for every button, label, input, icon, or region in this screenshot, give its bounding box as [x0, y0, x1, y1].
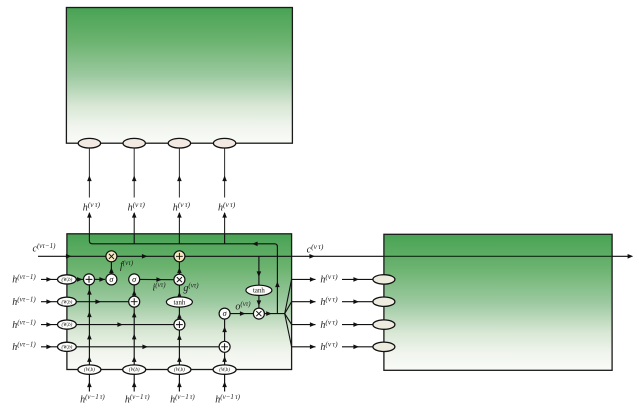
svg-text:h(ν τ): h(ν τ): [128, 200, 146, 213]
wire column 1 rising to plus1: [88, 285, 90, 365]
op node: forget multiply on c-line: [106, 251, 117, 262]
wire tanh-g up to times-i: [178, 285, 180, 297]
wire h-out column 3 upper segment: [178, 148, 180, 198]
input ellipse row 1 on left edge: [58, 275, 77, 284]
svg-text:(W,b): (W,b): [62, 345, 73, 350]
wire bottom input arrow col 1: [88, 374, 90, 391]
input ellipse right box row 1: [373, 275, 395, 284]
wire column 2 rising to plus2: [133, 307, 135, 365]
arrowhead h out row 3 mid: [353, 322, 359, 327]
arrowhead column 4: [222, 356, 227, 362]
arrowhead below label col 3: [177, 212, 182, 218]
op node: plus row4: [219, 341, 230, 352]
svg-text:h(ν τ): h(ν τ): [218, 200, 236, 213]
arrowhead row4: [142, 345, 148, 350]
arrowhead c mid: [142, 254, 148, 259]
arrowhead column 3: [177, 334, 182, 340]
svg-text:h(ντ−1): h(ντ−1): [12, 318, 36, 330]
wire c branch down to tanh: [258, 256, 260, 285]
arrowhead times-h out: [266, 311, 272, 316]
wire h out row 1 second segment: [342, 278, 373, 280]
arrowhead before sigma-f: [99, 277, 105, 282]
svg-text:h(ντ−1): h(ντ−1): [12, 273, 36, 285]
input ellipse row 4 on left edge: [58, 342, 77, 351]
arrowhead tanh to times-h: [257, 300, 262, 306]
svg-text:h(ντ−1): h(ντ−1): [12, 296, 36, 308]
svg-text:tanh: tanh: [253, 288, 265, 295]
arrowhead below label col 1: [87, 212, 92, 218]
svg-text:h(ν−1 τ): h(ν−1 τ): [170, 393, 195, 405]
op node: sigma-o output gate: [219, 308, 230, 319]
wire h out row 1 first segment: [292, 278, 316, 280]
input ellipse row 2 on left edge: [58, 297, 77, 306]
wire input arrow row 1: [41, 278, 57, 280]
arrowhead mid col 2: [132, 176, 137, 182]
wire h out row 4 first segment: [292, 346, 316, 348]
wire plus4 up to sigma-o: [224, 319, 226, 341]
wire ellipse2 to plus2: [76, 301, 128, 303]
wire tanh down to times-h: [258, 295, 260, 308]
svg-text:(W,b): (W,b): [174, 368, 185, 373]
wire bottom input arrow col 3: [178, 374, 180, 391]
arrowhead bottom input col 3: [177, 382, 182, 388]
wire column 4 box-top segment: [224, 234, 226, 244]
arrowhead column 3: [177, 356, 182, 362]
svg-text:h(ν τ): h(ν τ): [320, 340, 338, 353]
wire h distribution: branch up and across top: [89, 234, 277, 314]
arrowhead f to times-c: [109, 268, 114, 274]
arrowhead plus2 to sigma-i: [132, 290, 137, 296]
svg-text:c(ν τ): c(ν τ): [307, 242, 324, 255]
node: current LSTM cell box (main): [67, 234, 292, 370]
op node: add on c-line: [174, 251, 185, 262]
node: next-time-step LSTM cell box (right): [384, 234, 612, 370]
wire fan-out diagonal 4: [285, 314, 292, 347]
wire h-out column 1 upper segment: [88, 148, 90, 198]
arrowhead column 2: [132, 312, 137, 318]
wire ellipse3 to plus3: [76, 324, 173, 326]
input ellipse row 3 on left edge: [58, 320, 77, 329]
wire plus2 up to sigma-i: [133, 285, 135, 296]
svg-text:c(ντ−1): c(ντ−1): [33, 242, 57, 254]
op node: plus row1: [84, 274, 95, 285]
arrowhead into plus-c: [177, 268, 182, 274]
arrowhead column 1: [87, 356, 92, 362]
input ellipse top box 1: [78, 138, 100, 148]
svg-text:h(ν τ): h(ν τ): [320, 295, 338, 308]
wire input arrow row 2: [41, 301, 57, 303]
arrowhead on branch up: [275, 282, 280, 288]
arrowhead bottom input col 4: [222, 382, 227, 388]
input ellipse top box 2: [123, 138, 145, 148]
arrowhead h out row 1 mid: [353, 277, 359, 282]
wire h-out column 3 lower segment: [178, 213, 180, 234]
arrowhead plus4 to sigma-o: [222, 327, 227, 333]
arrowhead h out row 4: [310, 345, 316, 350]
svg-text:h(ν−1 τ): h(ν−1 τ): [125, 393, 150, 405]
input ellipse col 2 on bottom edge: [123, 365, 146, 374]
op node: plus row2: [129, 296, 140, 307]
svg-text:h(ντ−1): h(ντ−1): [12, 341, 36, 353]
arrowhead on inner wire leftward: [252, 242, 258, 247]
svg-text:(W,b): (W,b): [62, 278, 73, 283]
svg-text:(W,b): (W,b): [84, 368, 95, 373]
wire plus1 to sigma-f: [95, 278, 105, 280]
arrowhead tanh-g to times-i: [177, 292, 182, 298]
wire h out row 3 second segment: [342, 324, 373, 326]
svg-text:h(ν τ): h(ν τ): [83, 200, 101, 213]
wire h-out column 2 lower segment: [133, 213, 135, 234]
arrowhead row3: [117, 322, 123, 327]
svg-text:(W,b): (W,b): [129, 368, 140, 373]
wire h out row 2 second segment: [342, 301, 373, 303]
arrowhead before plus1: [77, 277, 83, 282]
wire c-line through right box: [384, 255, 612, 257]
op node: sigma-i input gate: [129, 274, 140, 285]
wire h-out column 4 lower segment: [224, 213, 226, 234]
arrowhead mid col 4: [222, 176, 227, 182]
arrowhead below label col 4: [222, 212, 227, 218]
wire fan-out diagonal 1: [285, 279, 292, 313]
wire c-line output: [612, 255, 631, 257]
wire h-out column 2 upper segment: [133, 148, 135, 198]
arrowhead h out row 4 mid: [353, 345, 359, 350]
wire ellipse1 to plus1: [76, 278, 83, 280]
wire sigma-i to times-i: [140, 278, 174, 280]
svg-text:h(ν−1 τ): h(ν−1 τ): [80, 393, 105, 405]
wire sigma-o to times-h: [230, 313, 253, 315]
wire input arrow row 3: [41, 324, 57, 326]
wire fan-out diagonal 3: [285, 314, 292, 325]
arrowhead mid col 3: [177, 176, 182, 182]
arrowhead column 1: [87, 312, 92, 318]
arrowhead input row 2: [46, 299, 52, 304]
svg-text:(W,b): (W,b): [62, 323, 73, 328]
op node: tanh-c: [246, 285, 272, 295]
arrowhead c after main box: [309, 254, 315, 259]
arrowhead bottom input col 1: [87, 382, 92, 388]
arrowhead bottom input col 2: [132, 382, 137, 388]
input ellipse right box row 2: [373, 297, 395, 306]
wire h out row 2 first segment: [292, 301, 316, 303]
svg-text:h(ν−1 τ): h(ν−1 τ): [215, 393, 240, 405]
input ellipse top box 4: [213, 138, 235, 148]
op node: plus row3: [174, 319, 185, 330]
arrowhead plus3 to tanh-g: [177, 313, 182, 319]
op node: tanh-g: [166, 297, 192, 307]
arrowhead h out row 1: [310, 277, 316, 282]
arrowhead down to tanh: [257, 271, 262, 277]
wire h out row 3 first segment: [292, 324, 316, 326]
arrowhead row2: [95, 299, 101, 304]
op node: sigma-f forget gate: [106, 274, 117, 285]
arrowhead h out row 3: [310, 322, 316, 327]
arrowhead column 1: [87, 334, 92, 340]
wire column 3 box-top segment: [178, 234, 180, 244]
arrowhead mid col 1: [87, 176, 92, 182]
wire sigma-f up to times-c: [110, 262, 112, 274]
arrowhead c output: [628, 254, 634, 259]
wire times-h to fan point: [264, 313, 284, 315]
arrowhead input row 3: [46, 322, 52, 327]
wire bottom input arrow col 4: [224, 374, 226, 391]
arrowhead below label col 2: [132, 212, 137, 218]
input ellipse right box row 3: [373, 320, 395, 329]
arrowhead h out row 2: [310, 299, 316, 304]
svg-text:tanh: tanh: [174, 299, 186, 306]
wire column 3 rising to plus3: [178, 330, 180, 365]
wire h-out column 1 lower segment: [88, 213, 90, 234]
svg-text:h(ν τ): h(ν τ): [320, 272, 338, 285]
arrowhead i to times-i: [156, 277, 162, 282]
input ellipse col 3 on bottom edge: [168, 365, 191, 374]
input ellipse right box row 4: [373, 342, 395, 351]
wire bottom input arrow col 2: [133, 374, 135, 391]
wire c-line inside main box: [38, 255, 292, 257]
wire column 2 box-top segment: [133, 234, 135, 244]
wire plus3 up to tanh-g: [178, 307, 180, 319]
wire input arrow row 4: [41, 346, 57, 348]
arrowhead column 2: [132, 334, 137, 340]
svg-text:(W,b): (W,b): [62, 300, 73, 305]
svg-text:(W,b): (W,b): [219, 368, 230, 373]
arrowhead input row 1: [46, 277, 52, 282]
input ellipse col 4 on bottom edge: [213, 365, 236, 374]
wire fan-out diagonal 2: [285, 302, 292, 314]
wire h out row 4 second segment: [342, 346, 373, 348]
svg-text:h(ν τ): h(ν τ): [173, 200, 191, 213]
arrowhead input row 4: [46, 345, 52, 350]
wire c-line between boxes: [292, 255, 384, 257]
op node: times-i: [174, 274, 185, 285]
wire ellipse4 to plus4: [76, 346, 219, 348]
input ellipse top box 3: [168, 138, 190, 148]
op node: times-h output multiply: [253, 308, 264, 319]
input ellipse col 1 on bottom edge: [78, 365, 101, 374]
wire column 4 rising to plus4: [224, 352, 226, 365]
node: next-layer LSTM cell box (top): [66, 8, 292, 144]
arrowhead c entering box: [66, 254, 72, 259]
svg-text:h(ν τ): h(ν τ): [320, 317, 338, 330]
arrowhead column 1: [87, 289, 92, 295]
arrowhead h out row 2 mid: [353, 299, 359, 304]
arrowhead column 2: [132, 356, 137, 362]
arrowhead o to times-h: [240, 311, 246, 316]
wire times-i up to plus-c: [178, 262, 180, 274]
wire h-out column 4 upper segment: [224, 148, 226, 198]
